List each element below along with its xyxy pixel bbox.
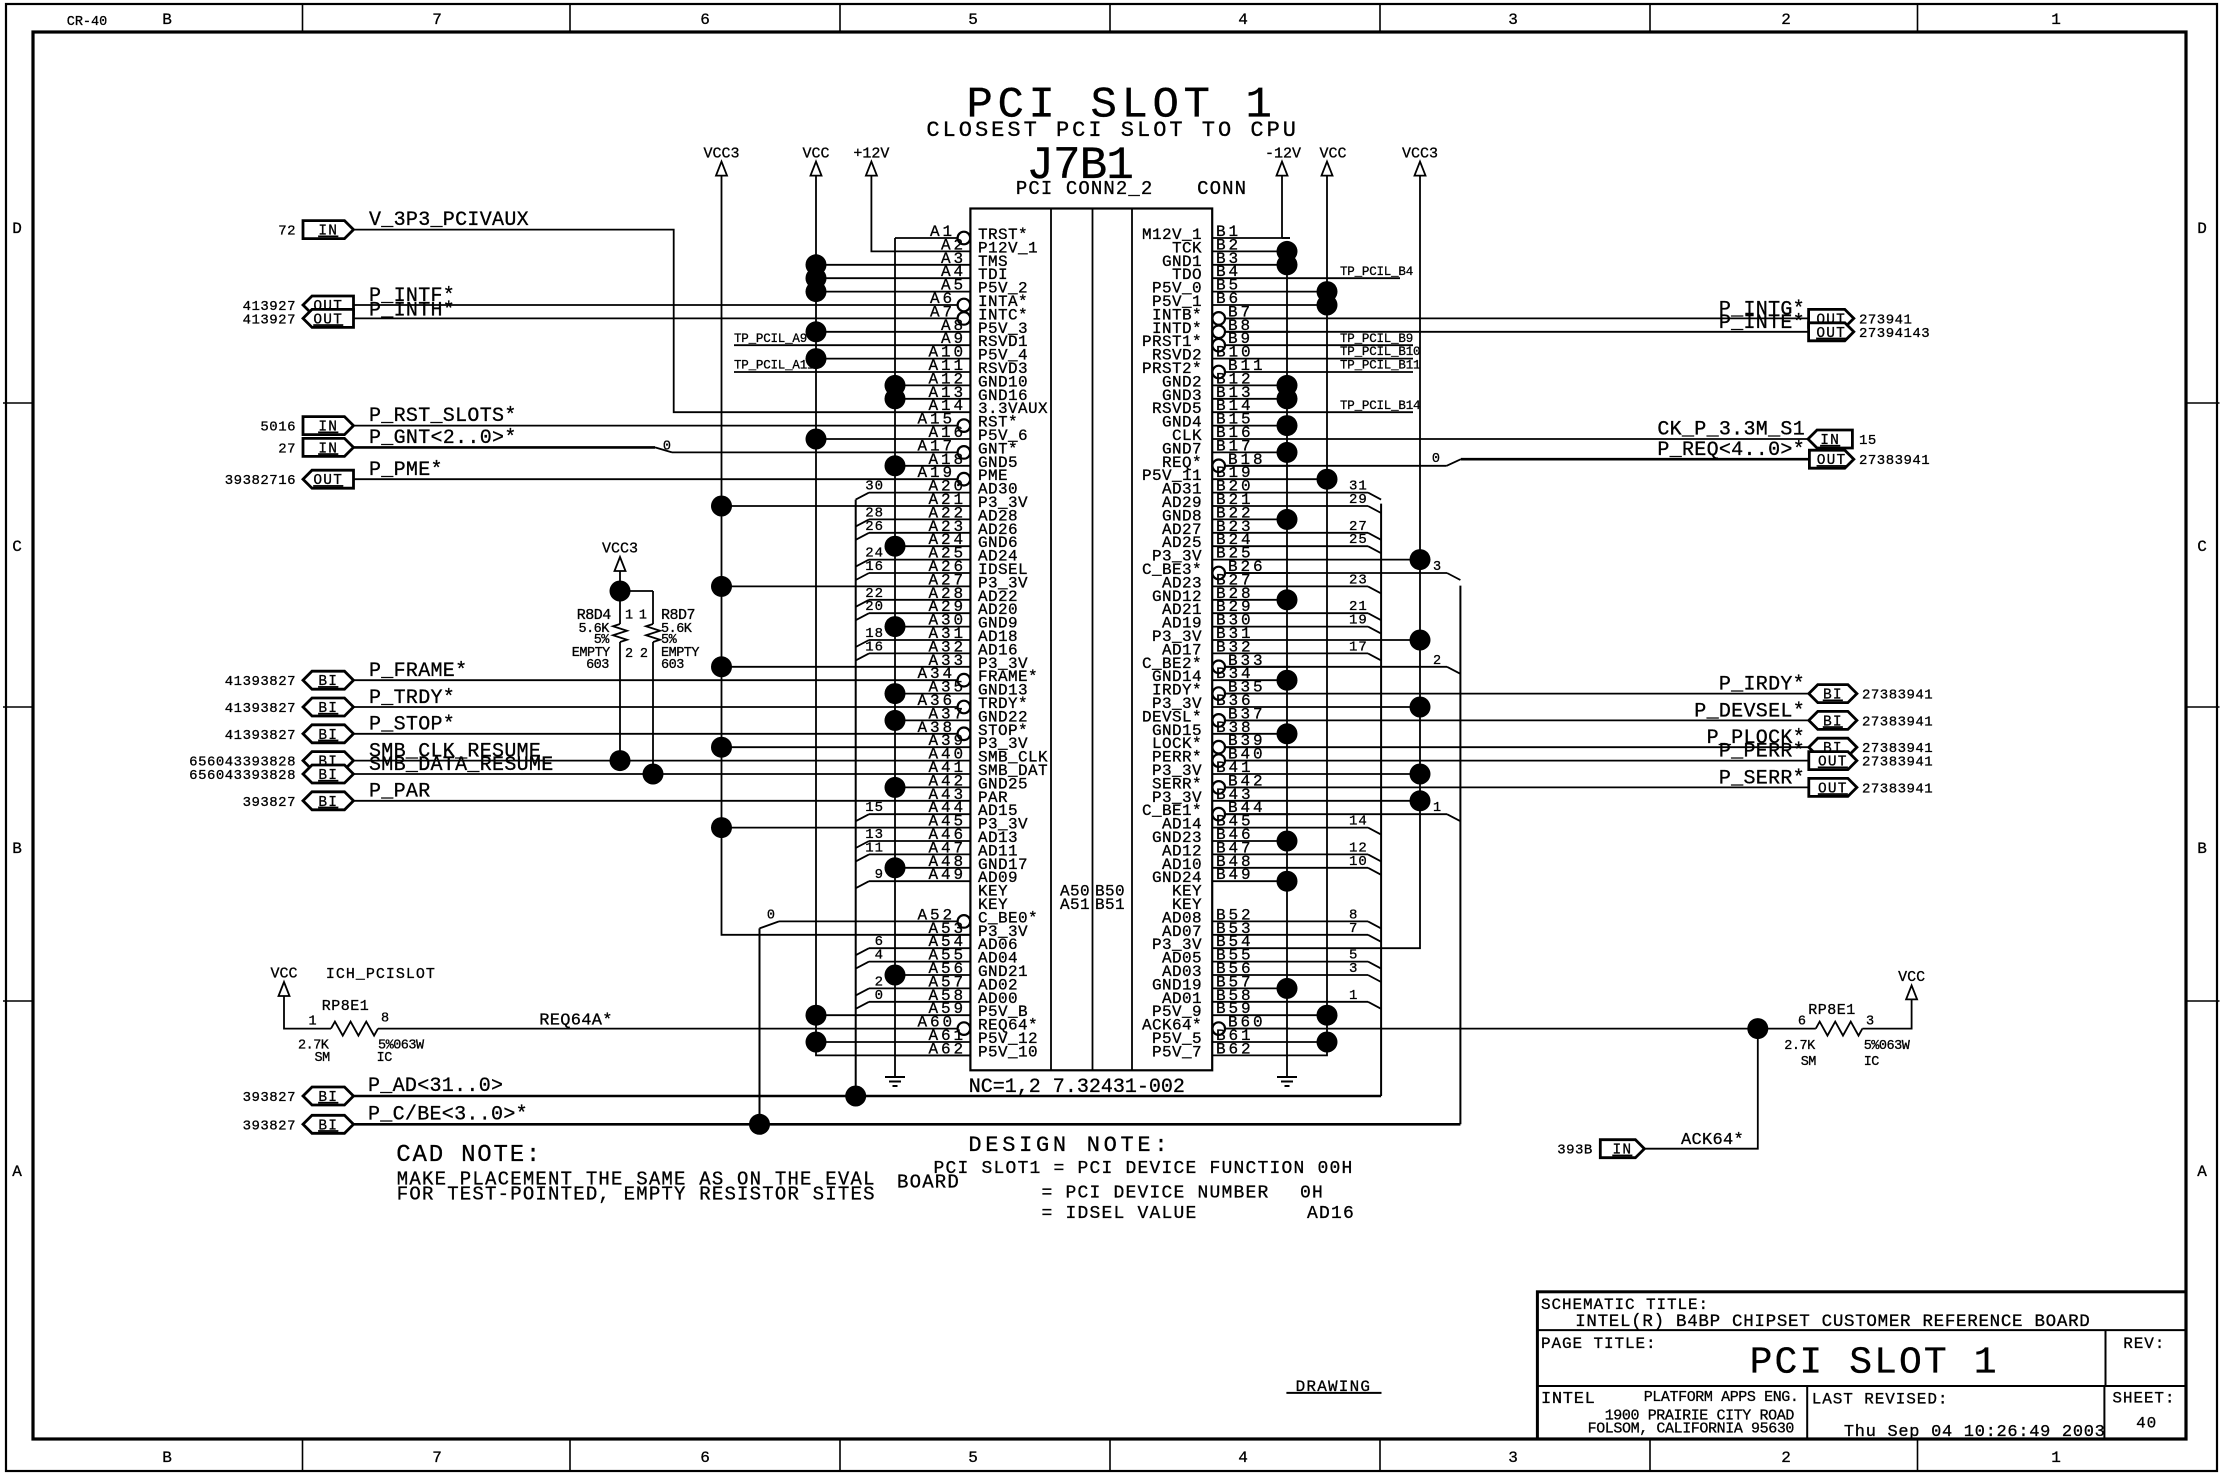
svg-text:4: 4: [1238, 11, 1248, 29]
svg-text:11: 11: [865, 840, 884, 856]
svg-text:2.7K: 2.7K: [1784, 1039, 1816, 1054]
svg-text:SM: SM: [315, 1051, 331, 1066]
sheet flag BI P_IRDY*: [1809, 685, 1857, 703]
junction SMB_CLK_RESUME / R8D4: [610, 750, 631, 771]
testpoint TP_PCIL_A9 on pin A9: [734, 344, 895, 346]
svg-text:5: 5: [968, 11, 978, 29]
sheet flag OUT P_INTF*: [303, 296, 354, 314]
svg-text:8: 8: [381, 1012, 389, 1027]
svg-text:TP_PCIL_A11: TP_PCIL_A11: [734, 359, 814, 373]
sheet flag BI P_PAR: [303, 792, 354, 810]
wire AD bit 24 ripper pin A25: [869, 559, 895, 561]
wire AD bit 21 ripper pin B29: [1290, 612, 1368, 614]
svg-text:9: 9: [875, 867, 884, 883]
svg-text:3: 3: [1508, 1449, 1518, 1467]
svg-text:41393827: 41393827: [225, 674, 296, 690]
svg-text:15: 15: [865, 800, 884, 816]
svg-text:CAD NOTE:: CAD NOTE:: [396, 1142, 542, 1169]
wire AD bit 25 ripper pin B24: [1290, 545, 1368, 547]
wire P_PERR* from pin B40: [1226, 760, 1809, 762]
svg-text:23: 23: [1349, 572, 1368, 588]
svg-text:2: 2: [1781, 11, 1791, 29]
svg-text:IC: IC: [1864, 1055, 1880, 1070]
wire AD bit 1 ripper pin B58: [1290, 1001, 1368, 1003]
wire AD bit 16 ripper pin A32: [869, 652, 895, 654]
svg-text:B: B: [12, 840, 22, 858]
svg-text:AD16: AD16: [1307, 1204, 1355, 1224]
svg-text:1: 1: [308, 1015, 316, 1030]
svg-text:20: 20: [865, 599, 884, 615]
wire P_INTE* from pin B8: [1226, 331, 1809, 333]
svg-text:41393827: 41393827: [225, 701, 296, 717]
svg-text:5: 5: [968, 1449, 978, 1467]
bus P_C/BE<3..0>* horizontal: [354, 1123, 1461, 1126]
wire AD bit 0 ripper pin A58: [869, 1001, 895, 1003]
testpoint TP_PCIL_A11 on pin A11: [734, 371, 895, 373]
svg-text:BI: BI: [318, 728, 338, 744]
svg-text:16: 16: [865, 639, 884, 655]
svg-text:= PCI DEVICE NUMBER: = PCI DEVICE NUMBER: [1042, 1184, 1270, 1204]
sheet flag OUT P_PERR*: [1809, 752, 1857, 770]
bus P_REQ<4..0>* with bit 0 ripper from pin B18 REQ*: [1461, 458, 1810, 461]
svg-text:FOR TEST-POINTED, EMPTY RESIST: FOR TEST-POINTED, EMPTY RESISTOR SITES: [397, 1184, 876, 1206]
svg-text:17: 17: [1349, 639, 1368, 655]
svg-text:OUT: OUT: [1817, 453, 1847, 469]
svg-text:393827: 393827: [243, 1090, 296, 1106]
wire AD bit 19 ripper pin B30: [1290, 626, 1368, 628]
resistor network RP8E1 right 2.7K: [1816, 1022, 1863, 1036]
wire AD bit 17 ripper pin B32: [1290, 652, 1368, 654]
svg-text:30: 30: [865, 479, 884, 495]
svg-text:OUT: OUT: [313, 312, 343, 328]
wire P_INTF* to pin A6: [354, 304, 958, 306]
svg-text:IC: IC: [377, 1051, 393, 1066]
svg-text:BI: BI: [318, 674, 338, 690]
wire P_PME* to pin A19: [354, 478, 958, 480]
svg-text:B: B: [162, 11, 172, 29]
svg-text:PCI CONN2_2: PCI CONN2_2: [1016, 178, 1154, 200]
wire P_INTG* from pin B7: [1226, 317, 1809, 319]
svg-text:A: A: [2197, 1163, 2207, 1181]
wire AD bit 29 ripper pin B21: [1290, 505, 1368, 507]
svg-text:DESIGN NOTE:: DESIGN NOTE:: [968, 1133, 1171, 1158]
wire AD bit 12 ripper pin B47: [1290, 853, 1368, 855]
svg-text:BI: BI: [318, 1090, 338, 1106]
wire AD bit 2 ripper pin A57: [869, 987, 895, 989]
wire P_PLOCK* from pin B39: [1226, 746, 1809, 748]
svg-text:1: 1: [639, 609, 647, 624]
net GND rail right: [1287, 251, 1290, 1069]
sheet flag OUT P_REQ<4..0>*: [1809, 450, 1853, 468]
bus P_AD<31..0> horizontal: [354, 1095, 1382, 1098]
svg-text:PLATFORM APPS ENG.: PLATFORM APPS ENG.: [1644, 1389, 1799, 1406]
ground symbol left: [894, 1069, 896, 1077]
svg-text:26: 26: [865, 519, 884, 535]
svg-text:6: 6: [1798, 1015, 1806, 1030]
svg-text:1: 1: [625, 609, 633, 624]
wire AD bit 14 ripper pin B45: [1290, 827, 1368, 829]
net P3_3V rail right (VCC3): [1290, 176, 1420, 949]
wire AD bit 6 ripper pin A54: [869, 947, 895, 949]
svg-text:2: 2: [625, 647, 633, 662]
svg-text:10: 10: [1349, 854, 1368, 870]
bus C_BE left vertical: [759, 928, 761, 1124]
wire C_BE bit 2 ripper pin B33: [1226, 666, 1448, 668]
svg-text:PCI SLOT1 = PCI DEVICE FUNCTIO: PCI SLOT1 = PCI DEVICE FUNCTION 00H: [934, 1159, 1354, 1179]
bus C_BE right vertical: [1459, 586, 1461, 1125]
svg-text:REV:: REV:: [2123, 1335, 2165, 1353]
wire CK_P_3.3M_S1 from pin B16 CLK: [1290, 438, 1808, 440]
wire ACK64* flag to RP8E1: [1644, 1029, 1757, 1149]
svg-text:B62: B62: [1216, 1040, 1254, 1058]
svg-text:BI: BI: [318, 701, 338, 717]
svg-text:5%063W: 5%063W: [1864, 1039, 1911, 1054]
junction B2 on GND rail right: [1277, 241, 1298, 262]
junction ACK64 / RP8E1 right: [1747, 1018, 1768, 1039]
wire AD bit 20 ripper pin A29: [869, 612, 895, 614]
sheet flag BI P_DEVSEL*: [1809, 711, 1857, 729]
svg-text:4: 4: [875, 948, 884, 964]
svg-text:5016: 5016: [260, 420, 296, 436]
junction P_AD bus / left AD bus: [845, 1086, 866, 1107]
svg-text:B: B: [162, 1449, 172, 1467]
wire P_FRAME* to pin A34: [354, 679, 958, 681]
svg-text:0H: 0H: [1300, 1184, 1324, 1204]
wire P_PAR to pin A43: [354, 800, 896, 802]
svg-text:A49: A49: [928, 866, 966, 884]
wire AD bit 26 ripper pin A23: [869, 532, 895, 534]
wire C_BE bit 0 ripper pin A52: [779, 920, 957, 922]
svg-text:PAGE TITLE:: PAGE TITLE:: [1541, 1335, 1657, 1353]
wire AD bit 5 ripper pin B55: [1290, 961, 1368, 963]
wire P_IRDY* from pin B35: [1226, 693, 1809, 695]
svg-text:BI: BI: [318, 1118, 338, 1134]
svg-text:603: 603: [661, 658, 684, 673]
svg-text:P_AD<31..0>: P_AD<31..0>: [368, 1075, 503, 1098]
svg-text:TP_PCIL_B4: TP_PCIL_B4: [1340, 265, 1413, 279]
svg-text:PCI SLOT 1: PCI SLOT 1: [1750, 1342, 1999, 1385]
svg-text:RP8E1: RP8E1: [1808, 1002, 1856, 1019]
svg-text:CONN: CONN: [1197, 178, 1247, 200]
svg-text:B51: B51: [1095, 896, 1125, 914]
svg-text:393827: 393827: [243, 1118, 296, 1134]
svg-text:A51: A51: [1060, 896, 1090, 914]
sheet flag IN V_3P3_PCIVAUX: [303, 221, 354, 239]
svg-text:1: 1: [1349, 988, 1358, 1004]
svg-text:29: 29: [1349, 492, 1368, 508]
bus AD left vertical: [855, 500, 857, 1096]
svg-text:27: 27: [278, 441, 296, 457]
net P3_3V rail left (VCC3): [722, 176, 971, 935]
svg-text:393827: 393827: [243, 795, 296, 811]
wire AD bit 27 ripper pin B23: [1290, 532, 1368, 534]
wire AD bit 10 ripper pin B48: [1290, 867, 1368, 869]
wire SMB_DATA_RESUME to pin A41: [354, 773, 896, 775]
wire P_TRDY* to pin A36: [354, 706, 958, 708]
svg-text:656043393828: 656043393828: [189, 768, 296, 784]
svg-text:15: 15: [1859, 433, 1877, 449]
svg-text:Thu Sep 04 10:26:49 2003: Thu Sep 04 10:26:49 2003: [1844, 1423, 2106, 1442]
wire AD bit 18 ripper pin A31: [869, 639, 895, 641]
svg-text:1: 1: [1433, 801, 1441, 816]
svg-text:SHEET:: SHEET:: [2112, 1390, 2175, 1408]
svg-text:27383941: 27383941: [1862, 755, 1933, 771]
svg-text:1: 1: [2051, 11, 2061, 29]
svg-text:= IDSEL VALUE: = IDSEL VALUE: [1042, 1204, 1198, 1224]
svg-text:SM: SM: [1801, 1055, 1817, 1070]
testpoint TP_PCIL_B4 on pin B4: [1290, 277, 1400, 279]
svg-text:ICH_PCISLOT: ICH_PCISLOT: [326, 966, 436, 983]
svg-text:CR-40: CR-40: [67, 15, 108, 30]
svg-text:BI: BI: [318, 795, 338, 811]
resistor R8D7 5.6K 5% EMPTY 603: [620, 590, 653, 592]
svg-text:D: D: [12, 220, 22, 238]
svg-text:FOLSOM, CALIFORNIA 95630: FOLSOM, CALIFORNIA 95630: [1588, 1421, 1795, 1438]
svg-text:41393827: 41393827: [225, 728, 296, 744]
title block: [1537, 1292, 2186, 1439]
svg-text:INTEL(R) B4BP CHIPSET CUSTOMER: INTEL(R) B4BP CHIPSET CUSTOMER REFERENCE…: [1575, 1312, 2090, 1332]
ground symbol right: [1286, 1069, 1288, 1077]
net +12V to pin A2: [871, 176, 895, 252]
svg-text:LAST REVISED:: LAST REVISED:: [1812, 1391, 1949, 1409]
wire ACK64 net from pin B60: [1226, 1028, 1816, 1030]
svg-text:P_RST_SLOTS*: P_RST_SLOTS*: [369, 405, 517, 428]
svg-text:3: 3: [1866, 1015, 1874, 1030]
svg-text:0: 0: [875, 988, 884, 1004]
sheet flag OUT P_SERR*: [1809, 778, 1857, 796]
wire C_BE bit 3 ripper pin B26: [1226, 572, 1448, 574]
svg-text:BI: BI: [1823, 688, 1843, 704]
junction SMB_DATA_RESUME / R8D7: [643, 764, 664, 785]
svg-text:27383941: 27383941: [1862, 781, 1933, 797]
svg-text:16: 16: [865, 559, 884, 575]
svg-text:B: B: [2197, 840, 2207, 858]
junction P_C/BE bus / left C_BE bus: [749, 1114, 770, 1135]
svg-text:TP_PCIL_B11: TP_PCIL_B11: [1340, 359, 1420, 373]
wire AD bit 23 ripper pin B27: [1290, 585, 1368, 587]
wire AD bit 7 ripper pin B53: [1290, 934, 1368, 936]
testpoint TP_PCIL_B9 on pin B9: [1290, 344, 1413, 346]
svg-text:3: 3: [1433, 560, 1441, 575]
net P5V rail right (VCC): [1290, 176, 1327, 1056]
svg-text:393B: 393B: [1557, 1143, 1593, 1159]
svg-text:D: D: [2197, 220, 2207, 238]
wire AD bit 22 ripper pin A28: [869, 599, 895, 601]
svg-text:REQ64A*: REQ64A*: [539, 1012, 613, 1031]
wire P_INTH* to pin A7: [354, 317, 958, 319]
bus P_GNT<2..0>* with bit 0 ripper to pin A17 GNT*: [354, 446, 656, 449]
sheet flag OUT P_INTG*: [1809, 309, 1854, 327]
svg-text:27394143: 27394143: [1859, 326, 1930, 342]
wire AD bit 31 ripper pin B20: [1290, 492, 1368, 494]
sheet flag BI P_C/BE<3..0>*: [303, 1115, 354, 1133]
svg-text:C: C: [2197, 538, 2207, 556]
sheet flag BI P_TRDY*: [303, 698, 354, 716]
svg-text:IN: IN: [1820, 433, 1840, 449]
wire P_STOP* to pin A38: [354, 733, 958, 735]
wire C_BE bit 1 ripper pin B44: [1226, 813, 1448, 815]
svg-text:TP_PCIL_B9: TP_PCIL_B9: [1340, 332, 1413, 346]
net P5V rail left (VCC): [816, 176, 970, 1056]
svg-text:IN: IN: [1612, 1143, 1632, 1159]
svg-text:ACK64*: ACK64*: [1681, 1131, 1744, 1150]
wire AD bit 16 ripper pin A26: [869, 572, 895, 574]
resistor R8D4 5.6K 5% EMPTY 603: [619, 571, 621, 591]
svg-text:TP_PCIL_B14: TP_PCIL_B14: [1340, 399, 1420, 413]
wire P_RST_SLOTS* to pin A15: [354, 425, 958, 427]
svg-text:IN: IN: [318, 224, 338, 240]
svg-text:V_3P3_PCIVAUX: V_3P3_PCIVAUX: [369, 209, 529, 232]
svg-text:A: A: [12, 1163, 22, 1181]
sheet flag IN CK_P_3.3M_S1: [1808, 430, 1852, 448]
svg-text:C: C: [12, 538, 22, 556]
svg-text:413927: 413927: [243, 312, 296, 328]
svg-text:TP_PCIL_A9: TP_PCIL_A9: [734, 332, 807, 346]
svg-text:4: 4: [1238, 1449, 1248, 1467]
wire P_SERR* from pin B42: [1226, 786, 1809, 788]
svg-text:27383941: 27383941: [1862, 688, 1933, 704]
svg-text:OUT: OUT: [1818, 755, 1848, 771]
svg-text:40: 40: [2136, 1415, 2157, 1433]
testpoint TP_PCIL_B11 on pin B11: [1290, 371, 1413, 373]
svg-text:OUT: OUT: [313, 473, 343, 489]
sheet flag BI P_STOP*: [303, 725, 354, 743]
svg-text:VCC: VCC: [1319, 146, 1346, 163]
sheet flag BI SMB_CLK_RESUME: [303, 752, 354, 770]
svg-text:27383941: 27383941: [1859, 453, 1930, 469]
wire AD bit 11 ripper pin A47: [869, 853, 895, 855]
wire AD bit 15 ripper pin A44: [869, 813, 895, 815]
sheet flag BI SMB_DATA_RESUME: [303, 765, 354, 783]
sheet flag BI P_PLOCK*: [1809, 738, 1857, 756]
svg-text:IN: IN: [318, 420, 338, 436]
svg-text:25: 25: [1349, 532, 1368, 548]
svg-text:1: 1: [2051, 1449, 2061, 1467]
svg-text:P5V_10: P5V_10: [978, 1043, 1038, 1061]
svg-text:7: 7: [432, 1449, 442, 1467]
sheet flag BI P_FRAME*: [303, 671, 354, 689]
svg-text:27383941: 27383941: [1862, 714, 1933, 730]
sheet flag OUT P_INTH*: [303, 309, 354, 327]
wire AD bit 8 ripper pin B52: [1290, 920, 1368, 922]
wire SMB_CLK_RESUME to pin A40: [354, 760, 896, 762]
svg-text:OUT: OUT: [1818, 781, 1848, 797]
svg-text:B49: B49: [1216, 866, 1254, 884]
wire AD bit 30 ripper pin A20: [869, 492, 895, 494]
svg-text:14: 14: [1349, 814, 1368, 830]
svg-text:19: 19: [1349, 613, 1368, 629]
wire V_3P3_PCIVAUX to pin A14: [354, 230, 896, 413]
wire P_DEVSEL* from pin B37: [1226, 719, 1809, 721]
wire AD bit 4 ripper pin A55: [869, 961, 895, 963]
net GND rail left: [894, 238, 896, 1069]
svg-text:7: 7: [432, 11, 442, 29]
sheet flag BI P_AD<31..0>: [303, 1087, 354, 1105]
wire AD bit 13 ripper pin A46: [869, 840, 895, 842]
sheet flag IN P_GNT<2..0>*: [303, 438, 354, 456]
sheet flag IN P_RST_SLOTS*: [303, 417, 354, 435]
svg-text:603: 603: [586, 658, 609, 673]
svg-text:72: 72: [278, 224, 296, 240]
svg-text:39382716: 39382716: [225, 473, 296, 489]
sheet flag OUT P_INTE*: [1809, 323, 1854, 341]
svg-text:7: 7: [1349, 921, 1358, 937]
svg-text:0: 0: [767, 908, 775, 923]
net -12V to pin B1: [1282, 237, 1290, 239]
sheet flag OUT P_PME*: [303, 470, 354, 488]
svg-text:2: 2: [640, 647, 648, 662]
svg-text:2: 2: [1781, 1449, 1791, 1467]
bus AD right vertical: [1380, 504, 1382, 1096]
svg-text:BI: BI: [1823, 714, 1843, 730]
wire AD bit 9 ripper pin A49: [869, 880, 895, 882]
svg-text:P5V_7: P5V_7: [1152, 1043, 1202, 1061]
svg-text:6: 6: [700, 1449, 710, 1467]
testpoint TP_PCIL_B14 on pin B14: [1290, 411, 1413, 413]
svg-text:3: 3: [1349, 961, 1358, 977]
svg-text:3: 3: [1508, 11, 1518, 29]
svg-text:INTEL: INTEL: [1541, 1390, 1596, 1409]
sheet flag IN ACK64*: [1600, 1140, 1644, 1158]
svg-text:0: 0: [1432, 452, 1440, 467]
connector J7B1 body: [970, 209, 1212, 1071]
svg-text:P_C/BE<3..0>*: P_C/BE<3..0>*: [368, 1103, 528, 1126]
svg-text:2: 2: [1433, 654, 1441, 669]
svg-text:IN: IN: [318, 441, 338, 457]
svg-text:RP8E1: RP8E1: [322, 998, 370, 1015]
wire AD bit 3 ripper pin B56: [1290, 974, 1368, 976]
svg-text:BI: BI: [318, 768, 338, 784]
svg-text:OUT: OUT: [1816, 326, 1846, 342]
testpoint TP_PCIL_B10 on pin B10: [1290, 358, 1413, 360]
svg-text:TP_PCIL_B10: TP_PCIL_B10: [1340, 345, 1420, 359]
svg-text:6: 6: [700, 11, 710, 29]
wire AD bit 28 ripper pin A22: [869, 518, 895, 520]
resistor network RP8E1 left 2.7K: [284, 996, 331, 1029]
svg-text:-12V: -12V: [1265, 146, 1301, 163]
svg-text:0: 0: [663, 440, 671, 455]
